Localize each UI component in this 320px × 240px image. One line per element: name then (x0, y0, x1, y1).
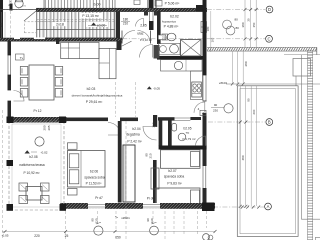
svg-text:natkrivena terasa: natkrivena terasa (19, 163, 44, 167)
svg-text:P 5,06 m²: P 5,06 m² (165, 2, 181, 6)
entry door leaf diagonal (121, 41, 132, 46)
terrace table and chairs (19, 183, 49, 204)
svg-text:degažma: degažma (126, 133, 140, 137)
level marker living (147, 86, 160, 90)
svg-text:220: 220 (34, 234, 40, 238)
svg-text:380: 380 (241, 22, 245, 27)
svg-text:vZb01: vZb01 (219, 81, 228, 85)
svg-text:b2.04: b2.04 (132, 127, 140, 131)
svg-text:230: 230 (213, 109, 218, 113)
svg-text:P 6,10 m²: P 6,10 m² (140, 38, 152, 42)
right exterior wall upper (196, 0, 207, 75)
wc door arc (196, 136, 206, 146)
terrace level marker (25, 150, 48, 154)
right wall lower segment (203, 113, 207, 211)
svg-text:Pr d7: Pr d7 (95, 196, 103, 200)
window tag Pr12 (34, 109, 42, 113)
deck right edge line (302, 55, 320, 219)
axis line C (0, 38, 265, 40)
svg-text:dnevni boravak/kuhinja/blagova: dnevni boravak/kuhinja/blagovaonica (72, 94, 123, 98)
svg-text:216: 216 (162, 36, 167, 40)
svg-text:2x18: 2x18 (56, 22, 64, 26)
pool (237, 86, 298, 237)
svg-text:b2.08: b2.08 (29, 155, 37, 159)
terrace corner columns (7, 117, 67, 211)
svg-text:P 4,88 m²: P 4,88 m² (164, 25, 180, 29)
bottom dimension texts (1, 234, 120, 240)
svg-text:kupaonica: kupaonica (162, 19, 176, 23)
slider tag vZb01 bottom (115, 216, 130, 220)
degazma labels (126, 127, 142, 143)
svg-text:A: A (267, 204, 270, 209)
bottom exterior wall (60, 203, 215, 212)
svg-text:205: 205 (47, 125, 51, 130)
top wall (36, 8, 207, 11)
slider tag vZb01 top (219, 81, 228, 85)
svg-text:350: 350 (252, 22, 256, 27)
wc bowl (172, 124, 177, 132)
kitchen counter along top wall (61, 42, 99, 58)
tiny top-left dim texts (8, 0, 13, 7)
dimension chain top right (241, 0, 258, 48)
stair hall name on wall (86, 8, 107, 12)
staircase upper flight (44, 0, 115, 9)
axis line D (0, 9, 265, 11)
terrace door arc right (194, 102, 205, 113)
washing machine (160, 46, 167, 53)
svg-text:stubište/hodnik: stubište/hodnik (86, 8, 107, 12)
svg-text:650: 650 (115, 236, 121, 240)
corridor cupboard (154, 45, 160, 59)
bedroom top wall (66, 118, 138, 122)
svg-text:600: 600 (252, 109, 256, 114)
degazma door right arc (143, 127, 157, 141)
living top wall (0, 38, 122, 41)
dashed projection lines living (116, 82, 136, 117)
dining table (29, 65, 54, 100)
left bedroom nightstands (68, 143, 78, 195)
svg-text:P 11,53 m²: P 11,53 m² (86, 182, 103, 186)
room above top wall label (148, 0, 180, 8)
svg-text:B: B (268, 120, 271, 125)
bathroom b2.02 left wall (157, 11, 161, 44)
tag 216 (158, 35, 167, 40)
svg-text:30: 30 (246, 18, 250, 22)
stair landing edge (37, 29, 116, 31)
svg-text:C: C (267, 36, 270, 41)
terrace rotated dims (43, 125, 51, 130)
wc b2.05 walls and shaft (159, 118, 207, 150)
toilet door arc (18, 6, 26, 10)
door tag 4 box (200, 110, 206, 115)
kitchen sink circle (174, 61, 182, 69)
axis line A (213, 206, 264, 209)
svg-text:P 10,92 m²: P 10,92 m² (23, 171, 40, 175)
bedroom divider wall (153, 160, 157, 207)
deck edge to pool (226, 82, 320, 85)
window tag Pr d7 (95, 196, 103, 200)
stair hall label b.00 (94, 3, 101, 7)
svg-text:-0,05: -0,05 (153, 87, 160, 91)
living bottom wall over terrace (7, 117, 67, 124)
boundary fence ladder (308, 50, 313, 240)
WC bowl bathroom (162, 33, 176, 41)
svg-text:P 2,42 m²: P 2,42 m² (127, 139, 142, 143)
dining chairs right (55, 67, 63, 98)
left wall window ticks (8, 55, 12, 101)
svg-text:210: 210 (123, 21, 129, 25)
svg-text:P 13,15 m²: P 13,15 m² (82, 14, 99, 18)
svg-text:80: 80 (236, 26, 240, 30)
bathroom labels (162, 15, 179, 29)
bottom dimension line (2, 230, 217, 233)
bottom right small marker (203, 234, 213, 240)
svg-text:280: 280 (244, 61, 248, 66)
window marker circle 1 (91, 218, 104, 235)
bathroom door arc (140, 45, 153, 58)
dim chain near right wall (211, 11, 215, 52)
ulaz label (137, 32, 144, 36)
svg-text:Tv: Tv (20, 56, 24, 60)
terrace left pier (7, 160, 14, 166)
entry niche wall stub (144, 12, 158, 16)
deck hatched edge band (207, 47, 317, 51)
window tag Pr d6 (147, 196, 155, 200)
grid bubble A (265, 203, 272, 210)
right bedroom desk (151, 168, 159, 189)
svg-text:b.00: b.00 (94, 3, 101, 7)
svg-text:b2.06: b2.06 (90, 169, 98, 173)
bathroom b2.02 bottom wall (157, 56, 206, 60)
pool dimension chain (239, 86, 257, 208)
svg-text:b2.03: b2.03 (87, 87, 96, 91)
rotated dim 180 (206, 26, 210, 31)
svg-text:265: 265 (0, 22, 3, 27)
svg-text:25: 25 (65, 234, 69, 238)
svg-text:210: 210 (151, 122, 155, 127)
svg-text:-0,02: -0,02 (40, 151, 47, 155)
svg-text:105: 105 (211, 37, 215, 42)
right wall slider window (203, 75, 207, 101)
bedroom 1 right wall (118, 121, 122, 203)
outdoor shower pad (293, 59, 311, 86)
axis line B (208, 121, 265, 123)
svg-text:b2.02: b2.02 (170, 15, 179, 19)
grid bubble B (266, 119, 273, 126)
staircase lower flight (24, 11, 115, 38)
left exterior wall living (8, 41, 12, 122)
deck corner tick (316, 47, 318, 55)
svg-text:-0,05: -0,05 (1, 234, 8, 238)
degazma right wall stub (153, 115, 201, 127)
svg-text:90: 90 (214, 103, 218, 107)
svg-text:P 29,61 m²: P 29,61 m² (86, 100, 103, 104)
wc sink (178, 133, 186, 141)
svg-text:210: 210 (149, 153, 153, 158)
left bedroom bed (68, 151, 106, 188)
entry hall wall vertical (149, 0, 154, 30)
interior wall kitchen vertical (117, 41, 122, 50)
left axis dashed (9, 11, 11, 38)
svg-text:spavaća soba: spavaća soba (84, 175, 105, 179)
svg-text:b2.07: b2.07 (168, 169, 176, 173)
dining chairs left (20, 67, 28, 98)
door height note 2,05 (140, 24, 147, 28)
entry door arcs (122, 31, 151, 44)
svg-text:2,05: 2,05 (140, 24, 147, 28)
svg-text:90: 90 (247, 98, 251, 102)
ulaz area note (140, 38, 152, 42)
right window size with circle tag (211, 103, 233, 113)
svg-text:480: 480 (241, 155, 245, 160)
column markers with 80 labels (223, 18, 240, 35)
grid bubble D (266, 6, 273, 13)
stove 4 burners (192, 82, 202, 97)
pantry door arc (136, 19, 144, 27)
degazma door left arc (108, 123, 121, 136)
right wall bedroom window (203, 166, 207, 188)
shower (181, 40, 202, 57)
right bedroom labels (164, 169, 185, 186)
kitchen counter top run (161, 60, 203, 71)
window marker circle 2 (146, 218, 158, 235)
kitchen tall cabinets column (99, 48, 116, 78)
svg-text:80: 80 (235, 18, 239, 22)
grid bubble C (266, 35, 273, 42)
right bedroom bed 2 (156, 188, 201, 206)
TV cabinet (16, 54, 25, 60)
right bedroom bed 1 (161, 150, 201, 169)
svg-text:P 9,83 m²: P 9,83 m² (167, 182, 182, 186)
kitchen counter right run (191, 71, 203, 100)
svg-text:230: 230 (95, 218, 99, 223)
left margin dimension chain (0, 12, 5, 38)
svg-text:spavaća soba: spavaća soba (164, 175, 185, 179)
door size 90/210 vertical (145, 153, 153, 159)
svg-text:180: 180 (206, 26, 210, 31)
entry door size label (121, 17, 130, 25)
pantry cabinets (134, 0, 162, 6)
terrace round table (35, 137, 44, 146)
svg-text:vZb01: vZb01 (121, 216, 130, 220)
projection dashed verticals bottom (3, 110, 207, 240)
terrace outline dashed (9, 121, 64, 210)
terrace labels (19, 155, 44, 175)
svg-text:230: 230 (150, 218, 154, 223)
bathroom sink (170, 44, 179, 53)
level marker 0.00 (86, 22, 108, 28)
stair label 2x18 (53, 22, 67, 27)
pilaster below living top wall (56, 38, 60, 45)
stair right wall (116, 12, 120, 39)
svg-text:P 1,79 m²: P 1,79 m² (183, 137, 196, 141)
garden door arc left (14, 91, 25, 102)
door size 210 vertical (151, 122, 155, 127)
svg-text:Pr 12: Pr 12 (34, 109, 42, 113)
left bedroom labels (84, 169, 105, 185)
deck dimension verticals (232, 51, 248, 84)
wc labels (183, 126, 196, 141)
bathroom counter bottom (159, 43, 181, 55)
toilet room top-left walls (0, 0, 36, 41)
svg-text:ulaz: ulaz (137, 32, 144, 36)
deck inner line (284, 54, 320, 56)
stair hall area (80, 13, 102, 18)
plot corner bottom right (316, 237, 320, 240)
canopy dashed outline (24, 22, 60, 33)
svg-text:D: D (268, 7, 271, 12)
svg-text:210: 210 (8, 3, 13, 7)
svg-text:4: 4 (202, 112, 204, 116)
toilet WC bowl (15, 0, 23, 8)
living room labels (72, 87, 123, 104)
svg-text:wc: wc (186, 130, 190, 134)
wardrobe between bedrooms (123, 145, 135, 202)
svg-text:Pr d6: Pr d6 (147, 196, 155, 200)
duct in right wall (201, 22, 207, 33)
